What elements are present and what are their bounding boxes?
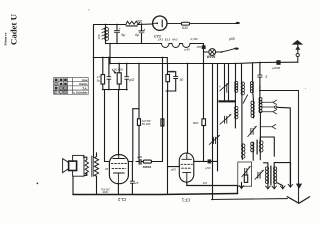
wire top B+ left (94, 24, 127, 26)
coil L4 (241, 144, 243, 160)
wire heater to NTC (190, 43, 204, 45)
junction R5 bus2 (138, 63, 140, 65)
junction bus2 x126.7 (126, 63, 128, 65)
label R1 value (136, 19, 143, 23)
capacitor C10 blob (208, 159, 212, 163)
speaker frame (73, 155, 84, 176)
label R2a (97, 75, 101, 82)
label C10 (205, 166, 210, 170)
wire bracket top (133, 108, 139, 110)
wire fuse to terminal (190, 23, 237, 25)
svg-text:µ68: µ68 (229, 37, 235, 41)
tube CL2 anode (113, 155, 125, 159)
title Cadet U (8, 13, 18, 45)
tube CF1 grid2 (182, 167, 192, 169)
arrow earth small (296, 184, 302, 189)
wire L2 to L3 (234, 91, 236, 106)
capacitor C1 electrolytic (114, 24, 119, 43)
coil L2 (234, 81, 236, 91)
junction bus1 x108.9 (108, 57, 110, 59)
svg-text:1A3 E13 4A3: 1A3 E13 4A3 (158, 38, 178, 42)
svg-text:25: 25 (134, 181, 139, 185)
wire R5 down (138, 125, 140, 161)
coil L6 osc primary (253, 101, 255, 118)
label L1 (97, 34, 101, 39)
label R5 (142, 119, 151, 126)
bottom bus (73, 194, 238, 195)
junction bus1 left (93, 57, 95, 59)
junction top wire x105.5 (105, 24, 106, 25)
core L8 L9 (256, 140, 259, 154)
wire ground return y90.6 (260, 90, 299, 92)
wire grid line CF1 (167, 91, 169, 193)
arrow R2 tap (112, 69, 116, 73)
svg-text:µ05: µ05 (171, 167, 176, 171)
rectifier tube CY1 (153, 16, 167, 30)
resistor R4 (143, 160, 151, 163)
tuning gang bar (218, 100, 235, 102)
wire CY1 to fuse (167, 23, 181, 25)
tube CL2 grid2 (112, 167, 126, 169)
wire NTC vertical (203, 44, 205, 64)
junction lineA x110 (109, 43, 111, 45)
heater CY1 (162, 44, 170, 48)
label CL2 rotated (117, 197, 126, 202)
wire between heaters 2 (180, 43, 183, 45)
resistor R6 (202, 119, 206, 126)
label CL2 left (105, 167, 109, 171)
capacitor C3 (107, 58, 111, 91)
bus2 chassis line (110, 62, 298, 63)
trimmer CT5 (220, 83, 229, 100)
resistor R5 (137, 119, 140, 126)
tube CF1 envelope (179, 153, 194, 182)
wire x204 R6 (203, 64, 205, 119)
wire rail2 drop left (105, 90, 109, 162)
tube CF1 anode (182, 153, 192, 159)
junction bus2 x119.2 (118, 63, 120, 65)
dial lamp (204, 49, 222, 56)
label R cathode (203, 181, 208, 185)
PART2 (37, 9, 310, 203)
label JW05 (185, 47, 191, 51)
wire lower bus (212, 198, 288, 201)
tube CF1 grid1 (181, 163, 192, 165)
ground tap (278, 183, 285, 189)
contact circle (275, 106, 277, 108)
label fuse (182, 26, 188, 30)
svg-text:Cadet U: Cadet U (8, 13, 18, 45)
bus1 screen line (94, 57, 168, 59)
wire contact to x290 (277, 107, 290, 187)
ground L11 (272, 184, 277, 189)
output transformer core (92, 156, 93, 177)
label R3 (169, 70, 175, 74)
trimmer CT3 (248, 126, 257, 136)
wire L3 down (234, 119, 236, 129)
wire CL2 grid right (128, 161, 132, 163)
svg-text:5µ: 5µ (97, 78, 101, 82)
speaker cone (63, 159, 70, 173)
capacitor C2 electrolytic (139, 24, 144, 44)
label J05 (196, 45, 201, 49)
wire L5 to L6 (252, 93, 255, 101)
wire L11 top to right (274, 163, 290, 167)
trimmer CT6 (255, 170, 264, 179)
output transformer secondary (94, 157, 98, 177)
svg-text:50.000: 50.000 (114, 67, 124, 71)
wire top B+ mid (137, 23, 152, 26)
antenna symbol (293, 41, 303, 63)
label CT5 (219, 84, 221, 88)
svg-text:J05: J05 (196, 45, 201, 49)
svg-text:µW08: µW08 (272, 66, 280, 70)
svg-text:CL2: CL2 (117, 197, 126, 202)
label C9 (137, 155, 142, 159)
wire rail2 (102, 89, 127, 91)
wire x212.9 AVC (212, 64, 214, 200)
earth big arrow (287, 197, 310, 204)
wire x235.4 (235, 64, 237, 82)
wire x217.4 (217, 64, 219, 172)
wire R4 to x162 (152, 161, 163, 163)
trap box (238, 162, 252, 186)
label C1 plus (119, 26, 122, 31)
label u05 (171, 167, 176, 171)
svg-text:0,3W: 0,3W (191, 37, 199, 41)
svg-text:50: 50 (180, 78, 184, 82)
label u68 (229, 37, 235, 41)
svg-text:40Ω: 40Ω (102, 190, 108, 194)
dust dot (37, 183, 39, 185)
wire L7 bottom down (259, 113, 261, 141)
switch table (54, 78, 89, 95)
junction x187 bus2 (187, 63, 189, 65)
dust speck mid (305, 88, 306, 89)
wire L9 top corner (260, 137, 274, 156)
resistor pot R7 (161, 119, 164, 126)
wire L2b down (241, 95, 243, 144)
trimmer CT1 (209, 135, 219, 144)
junction x235.4 (235, 63, 237, 65)
ground trap (239, 182, 244, 188)
dust speck top (88, 9, 89, 10)
ground x290 chevron (288, 184, 293, 187)
label speaker spec (101, 188, 111, 195)
tube CL2 grid1 (111, 162, 126, 164)
wire transformer bottom (96, 176, 98, 194)
wire left rail down (93, 25, 95, 158)
junction lamp branch (203, 51, 205, 53)
junction bus2 x203.6 (203, 63, 205, 65)
label C2 value (135, 33, 139, 37)
wire CF1 cathode bar (187, 182, 238, 193)
capacitor C9 grid chain (136, 160, 143, 165)
resistor R1 (126, 21, 140, 24)
speaker magnet (69, 161, 77, 170)
wire between heaters (169, 43, 172, 45)
capacitor C6 on x260 (258, 63, 262, 91)
svg-text:CF1: CF1 (181, 197, 190, 202)
trimmer CT4 (242, 166, 251, 176)
speaker drop (72, 176, 74, 194)
label R2 (114, 67, 124, 71)
label CF1 rotated (181, 197, 190, 202)
svg-text:6µ: 6µ (121, 33, 125, 37)
coil L7 band coil (259, 98, 261, 113)
junction C6 ground (259, 90, 261, 92)
junction CF1 anode x204 (203, 161, 205, 163)
coil L3 (234, 107, 236, 119)
svg-text:0M1: 0M1 (193, 121, 199, 125)
label CY1 (154, 35, 161, 39)
junction top wire x141.5 (141, 23, 142, 24)
junction bus2 x260 (259, 62, 261, 64)
wire CF1 anode right (194, 160, 218, 162)
wire R3 C5 bottom join (166, 90, 176, 92)
wire R6 down (203, 126, 205, 162)
switch wave band (243, 95, 247, 103)
svg-text:WV04: WV04 (207, 55, 216, 59)
capacitor C4 (125, 64, 129, 91)
wire antenna earth drop (298, 91, 300, 203)
field coil zigzag (85, 160, 88, 175)
resistor R2a (101, 58, 105, 90)
resistor NTC block (202, 45, 206, 49)
svg-text:Ü30: Ü30 (182, 26, 188, 30)
label C4 (129, 78, 135, 82)
label heater power (191, 37, 199, 41)
trimmer CT2 (220, 114, 231, 124)
svg-text:50 300: 50 300 (142, 122, 151, 126)
wire R5 top from bus2 (138, 64, 140, 119)
svg-text:47Ω: 47Ω (136, 19, 143, 23)
wire grid stub CF1 (168, 166, 180, 168)
label C2 plus (143, 27, 146, 32)
coil L9 (259, 141, 261, 152)
tube CF1 cathode (183, 172, 191, 182)
wire x187 bus2 to CF1 (187, 64, 189, 154)
label C6 (265, 74, 268, 79)
fuse Si (181, 22, 189, 25)
title Minerva (3, 32, 7, 45)
svg-text:45: 45 (105, 167, 109, 171)
resistor R8 in trap (244, 175, 247, 182)
junction bus1 x102.8 (102, 57, 104, 59)
label R4 (143, 165, 152, 169)
wire field coil top (83, 157, 86, 175)
junction top wire x117 (116, 24, 117, 25)
label C1 value (121, 33, 125, 37)
svg-text:100: 100 (97, 34, 101, 39)
capacitor C5 (168, 72, 178, 91)
wire rail2 drop right (118, 90, 120, 156)
IF output transformer L11 (273, 167, 275, 184)
wire x241.9 (241, 64, 243, 83)
wire x290 down (290, 163, 292, 188)
junction line A x117 (116, 43, 118, 45)
tap arrows band switch (260, 100, 276, 129)
svg-text:µ45: µ45 (185, 47, 191, 51)
junction bus1 x110 (109, 57, 111, 59)
wire x252.8 bus2 down (252, 64, 254, 82)
wire L8 bottom (253, 152, 260, 160)
svg-text:Minerva: Minerva (3, 32, 7, 45)
coil L2b (241, 82, 243, 95)
tube CL2 cathode (113, 173, 124, 184)
label heaters (158, 38, 178, 42)
svg-text:1M: 1M (203, 181, 208, 185)
wire x228.8 (228, 64, 230, 85)
wire x162.4 bus1 to grid chain (162, 58, 164, 162)
choke L1 with core (102, 24, 109, 43)
junction bus2 x110 (109, 63, 111, 65)
wire x224 (224, 64, 226, 101)
wire bus1 drop to bus2 (166, 58, 168, 64)
switch S1 (221, 48, 239, 53)
IF output transformer L10 (267, 167, 269, 184)
capacitor C7 antenna series (276, 60, 280, 65)
resistor R2 (117, 64, 121, 91)
wire transformer top lead (96, 153, 98, 157)
wire x110 lineA to bus2 (109, 44, 111, 64)
svg-text:µ50: µ50 (205, 166, 210, 170)
svg-text:6µ: 6µ (135, 33, 139, 37)
coil L5 (252, 82, 254, 93)
capacitor C8 cathode (130, 162, 134, 194)
wire x132 bracket (132, 109, 134, 162)
resistor R3 10M (166, 64, 170, 92)
terminal end top wire (236, 22, 240, 24)
label lamp (207, 55, 216, 59)
label C7 (272, 66, 280, 70)
junction grid CL2 (132, 161, 134, 163)
wire L10 top (264, 163, 268, 167)
heater CF1 (183, 44, 191, 48)
heater CL2 (172, 44, 180, 48)
label C8 (134, 181, 139, 185)
wire C6 to L7 (259, 86, 261, 98)
wire heater line A (106, 43, 162, 45)
svg-text:u.Schalter: u.Schalter (73, 91, 88, 95)
label C5 (180, 78, 184, 82)
tube CL2 envelope (109, 155, 128, 184)
core L10 L11 (269, 166, 272, 185)
coil L8 (252, 142, 254, 152)
svg-text:µ02: µ02 (129, 78, 135, 82)
wire CL2 cathode down (117, 184, 119, 195)
ground L10 (266, 184, 271, 189)
svg-text:µ06: µ06 (137, 155, 142, 159)
label R6 (193, 121, 199, 125)
junction bus1 x162.4 (162, 57, 164, 59)
svg-text:DW18: DW18 (143, 165, 152, 169)
junction line A x141.5 (141, 43, 143, 45)
